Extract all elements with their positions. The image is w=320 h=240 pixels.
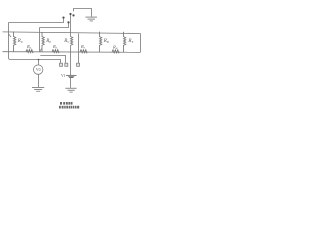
svg-text:V0: V0 — [36, 68, 41, 72]
svg-text:V1: V1 — [61, 74, 66, 78]
svg-text:RB: RB — [103, 39, 109, 44]
svg-text:Rx: Rx — [52, 44, 58, 50]
svg-text:RV: RV — [63, 39, 70, 44]
svg-text:RE: RE — [45, 39, 51, 44]
svg-text:Ru: Ru — [26, 44, 32, 50]
svg-text:Rw: Rw — [112, 44, 118, 50]
svg-text:RU: RU — [17, 39, 24, 44]
svg-text:RY: RY — [127, 39, 133, 44]
svg-text:Rs: Rs — [80, 44, 85, 50]
